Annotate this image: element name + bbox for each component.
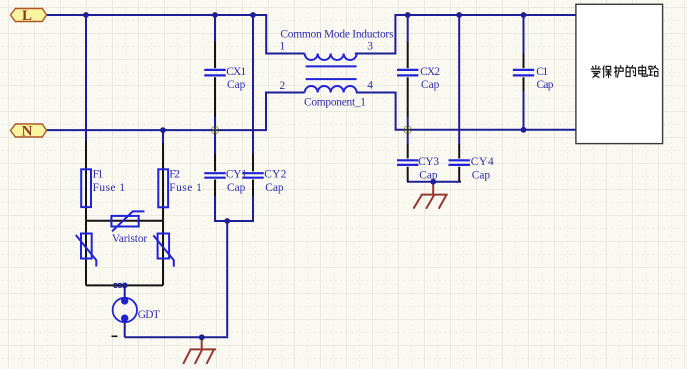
ground bottom left (183, 338, 216, 364)
GDT top electrode dot (121, 297, 128, 304)
svg-text:2: 2 (280, 80, 286, 92)
capacitor CY2 (242, 173, 263, 178)
junction marker CX2-Nout crossing (404, 126, 411, 133)
wire varistor bar horizontal (86, 220, 163, 222)
junction marker CX1-N crossing (211, 127, 218, 134)
svg-text:Cap: Cap (472, 169, 491, 181)
fuse F2 (158, 169, 168, 207)
wire C1 bottom stub (523, 92, 525, 130)
inductor core lines (306, 66, 357, 79)
svg-text:CY4: CY4 (471, 156, 494, 168)
char dian (639, 65, 648, 76)
node L-CX1 (212, 12, 218, 18)
node N-F2 (160, 127, 166, 133)
node Lout-CY4 (456, 12, 462, 18)
svg-text:Common Mode Inductors: Common Mode Inductors (280, 28, 394, 40)
wire GDT top bar (86, 284, 163, 286)
svg-text:Varistor: Varistor (112, 233, 148, 245)
svg-text:3: 3 (367, 41, 373, 53)
capacitor CX1 (204, 70, 225, 76)
pin CY1 pins (214, 154, 216, 196)
svg-text:Cap: Cap (421, 79, 440, 91)
wire left varistor vertical (85, 221, 87, 286)
inductor top winding (305, 54, 357, 60)
char hu (615, 66, 624, 78)
capacitor CY3 (397, 160, 418, 165)
label 受保护的电路 (591, 65, 658, 77)
char bao (603, 66, 611, 78)
svg-text:1: 1 (280, 41, 286, 53)
node L-CY2 (250, 12, 256, 18)
wire CX1-CY1 middle (214, 117, 216, 154)
varistor left vertical (76, 234, 97, 267)
svg-text:Cap: Cap (265, 182, 284, 194)
char lu (649, 66, 658, 76)
wire bottom horizontal to GDT (125, 336, 229, 338)
pin CX2 pins (407, 42, 409, 118)
fuse F1 (81, 169, 91, 207)
svg-text:Cap: Cap (419, 169, 438, 181)
node Nout-C1 (521, 127, 527, 133)
char de (626, 66, 635, 77)
svg-text:F2: F2 (169, 169, 180, 181)
wire GDT bottom stub (124, 321, 126, 338)
wire CX2 top stub (407, 15, 409, 42)
pin CY2 pins (252, 154, 254, 196)
node CY34 ground (430, 179, 436, 185)
char shou (591, 66, 600, 78)
capacitor CY1 (204, 173, 225, 178)
svg-text:CX1: CX1 (226, 66, 246, 78)
varistor horizontal (Varistor) (111, 211, 144, 231)
wire F1 upper vertical from L (85, 15, 87, 141)
capacitor C1 (513, 70, 534, 76)
svg-text:4: 4 (367, 79, 373, 91)
power port N (11, 124, 47, 137)
svg-text:CY1: CY1 (226, 169, 247, 181)
svg-text:N: N (22, 124, 33, 140)
svg-text:CY2: CY2 (264, 169, 286, 181)
svg-text:Component_1: Component_1 (304, 96, 366, 108)
pin CX1 pins (214, 42, 216, 118)
wire CY1-CY2 join bar (214, 220, 254, 222)
svg-text:L: L (22, 8, 32, 24)
GDT tube circle (113, 298, 137, 322)
pin CY3 pins (407, 144, 409, 182)
wire CY4 vertical from L-out (458, 15, 460, 144)
varistor right vertical (153, 234, 173, 267)
svg-text:F1: F1 (93, 169, 104, 181)
box 受保护的电路 (protected circuit) (576, 4, 663, 143)
node CY join (224, 218, 230, 224)
svg-text:CX2: CX2 (420, 66, 440, 78)
svg-text:CY3: CY3 (418, 156, 439, 168)
svg-text:Fuse 1: Fuse 1 (93, 182, 126, 194)
svg-text:Cap: Cap (227, 79, 246, 91)
wire down from CY join to bottom (226, 220, 228, 336)
pin CY4 pins (458, 144, 460, 182)
pin C1 pins (523, 54, 525, 92)
GDT tiny arcs at top junction (114, 283, 122, 287)
wire right varistor vertical (162, 221, 164, 286)
wire CX1 top stub (214, 15, 216, 42)
wire GDT top stub (124, 285, 126, 298)
wire CY2 vertical from L (252, 15, 254, 154)
svg-text:Fuse 1: Fuse 1 (169, 182, 202, 194)
capacitor CY4 (449, 160, 470, 165)
wire F2 stub below N (162, 130, 164, 143)
wire N-out with pin4 bend (356, 93, 576, 130)
wire CY1 lower (214, 196, 216, 221)
wire CY3-CY4 join bar (407, 181, 461, 183)
node Lout-C1 (521, 12, 527, 18)
svg-text:GDT: GDT (138, 309, 160, 321)
wire L-in top from port to pin1 bend (47, 15, 305, 54)
svg-text:Cap: Cap (227, 182, 246, 194)
wire CY2 lower (252, 196, 254, 221)
capacitor CX2 (397, 70, 418, 76)
node GDT top (122, 283, 128, 289)
inductor bottom winding (305, 86, 357, 92)
node L-F1 (83, 12, 89, 18)
pin GDT minus dash (112, 335, 118, 337)
wire F2 black vertical through fuse (162, 143, 164, 221)
svg-text:C1: C1 (536, 66, 548, 78)
wire C1 top stub (523, 15, 525, 54)
GDT bottom electrode dot (121, 315, 128, 322)
wire N-in from port to pin2 bend (47, 93, 305, 131)
wire CX2-CY3 middle (407, 117, 409, 144)
power port L (11, 9, 47, 22)
ground under CY3 CY4 (413, 182, 447, 209)
node Lout-CX2 (405, 12, 411, 18)
wire F1 black vertical through fuse (85, 141, 87, 221)
svg-text:Cap: Cap (537, 79, 554, 91)
wire L-out with pin3 bend (355, 15, 576, 54)
node bottom ground (199, 334, 205, 340)
